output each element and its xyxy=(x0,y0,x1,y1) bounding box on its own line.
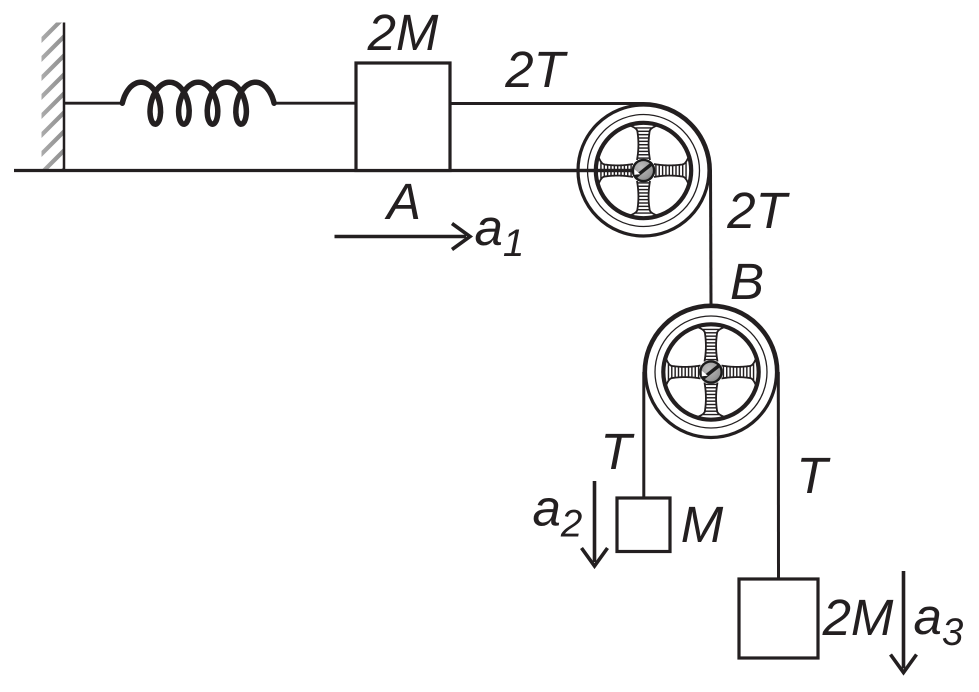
floor line over pulley xyxy=(560,169,641,172)
pulley B wheel xyxy=(646,307,777,438)
wall line xyxy=(63,23,66,171)
svg-text:2T: 2T xyxy=(726,182,790,239)
arrow a3 xyxy=(891,571,917,673)
string 2T horizontal xyxy=(450,102,644,105)
svg-text:2M: 2M xyxy=(367,4,439,61)
pulley B hub xyxy=(700,361,721,382)
string T left xyxy=(642,372,645,498)
wire spring to block A xyxy=(274,102,356,105)
string T right xyxy=(777,372,780,579)
svg-text:T: T xyxy=(600,423,635,480)
arrow a1 xyxy=(335,224,471,250)
arrow a2 xyxy=(582,481,608,566)
svg-text:2M: 2M xyxy=(822,589,894,646)
svg-text:B: B xyxy=(730,253,764,310)
svg-text:A: A xyxy=(384,173,421,230)
block A (2M) xyxy=(356,63,450,171)
pulley top wheel xyxy=(578,105,709,236)
rope wrap over top pulley xyxy=(644,104,711,171)
block 2M hanging xyxy=(739,579,818,658)
block M xyxy=(617,498,670,552)
svg-text:T: T xyxy=(796,447,831,504)
pulley top hub xyxy=(633,160,654,181)
rope wrap over pulley B xyxy=(644,305,778,372)
svg-text:2T: 2T xyxy=(504,41,568,98)
string 2T vertical xyxy=(709,171,713,306)
spring xyxy=(122,82,274,124)
wire wall to spring xyxy=(64,102,123,105)
svg-text:M: M xyxy=(681,496,724,553)
floor line xyxy=(14,169,643,172)
